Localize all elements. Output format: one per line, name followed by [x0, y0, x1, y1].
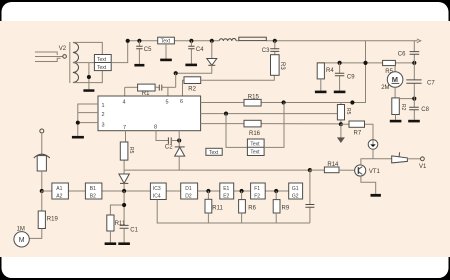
switch S1 [392, 152, 425, 163]
svg-text:D2: D2 [185, 193, 192, 199]
R11 C1 branch [110, 191, 124, 225]
transformer T1 core [69, 42, 71, 83]
svg-text:Text: Text [250, 141, 260, 147]
resistor R19 [29, 191, 45, 238]
svg-text:E2: E2 [223, 193, 229, 199]
svg-text:VT1: VT1 [369, 169, 381, 175]
svg-text:2: 2 [102, 112, 105, 118]
resistor Rm [390, 98, 402, 123]
resistor R16 [244, 120, 261, 127]
emitter wire [361, 176, 376, 194]
motor 2M [387, 66, 403, 98]
wire R15 net [201, 63, 366, 103]
wire top winding to box [73, 42, 102, 54]
diode VD1 [176, 41, 217, 73]
resistor R5b [383, 60, 396, 65]
wire box to rail [111, 41, 128, 63]
svg-text:R11: R11 [115, 221, 126, 227]
svg-text:R5: R5 [128, 147, 134, 154]
IC left pins to bus [78, 104, 98, 136]
capacitor C8 [408, 99, 420, 123]
capacitor C5 [136, 41, 142, 64]
svg-text:3: 3 [102, 123, 105, 129]
svg-text:F1: F1 [254, 186, 260, 192]
wire pin8 [156, 131, 168, 141]
svg-text:C6: C6 [398, 52, 406, 58]
svg-text:IC4: IC4 [153, 193, 161, 199]
svg-text:5: 5 [166, 100, 169, 106]
row rail [42, 190, 289, 192]
top rail [128, 40, 418, 42]
junction [87, 75, 91, 79]
wire top rail to rail2 [365, 41, 367, 63]
resistor R1 [125, 84, 159, 91]
ground VT1 [371, 194, 381, 197]
svg-text:V1: V1 [419, 164, 427, 170]
wire R7 to meter [365, 124, 374, 139]
svg-text:Text: Text [97, 57, 107, 63]
svg-text:C4: C4 [196, 47, 204, 53]
svg-text:F2: F2 [254, 193, 260, 199]
text tag [206, 148, 222, 156]
box IC3 IC4 [150, 183, 166, 200]
rail arrowhead [417, 39, 421, 43]
svg-text:R19: R19 [47, 217, 59, 223]
resistor R15 [244, 99, 261, 106]
terminal circle [40, 129, 44, 133]
svg-text:R3: R3 [279, 62, 285, 70]
plug V2 [35, 52, 66, 62]
transformer T1 winding [73, 43, 79, 83]
svg-text:V2: V2 [59, 46, 67, 52]
resistor R11 [107, 215, 114, 231]
collector wire [361, 159, 392, 165]
IC U1 [98, 96, 201, 131]
capacitor C4 [188, 41, 194, 64]
box F1 F2 [251, 183, 266, 199]
ground C4 [185, 64, 197, 67]
ground transformer [83, 89, 94, 92]
svg-text:C7: C7 [427, 81, 435, 87]
svg-text:G1: G1 [292, 186, 299, 192]
svg-text:4: 4 [123, 100, 126, 106]
svg-text:Text: Text [161, 39, 171, 45]
svg-text:R9: R9 [282, 206, 290, 212]
box E1 E2 [220, 183, 234, 199]
svg-text:C5: C5 [144, 47, 152, 53]
svg-text:C1: C1 [130, 227, 138, 233]
regulator U2 Text [158, 37, 175, 44]
regulator box Text/Text [94, 55, 111, 71]
arrow down [340, 124, 342, 137]
transistor VT1 [355, 165, 366, 176]
capacitor C1 [120, 225, 129, 228]
wire arrester down [41, 171, 43, 191]
box G1 G2 [289, 183, 303, 199]
svg-text:R16: R16 [249, 131, 261, 137]
wire pin7 [124, 131, 125, 170]
ground C5 [134, 64, 144, 67]
diode VD2 [175, 141, 185, 171]
wire R16 net [201, 123, 341, 125]
bottom rail [157, 200, 310, 224]
svg-text:R4: R4 [326, 68, 334, 74]
wire terminal to arrester [41, 133, 43, 156]
resistor R2 [183, 75, 275, 96]
box B1 B2 [85, 183, 102, 199]
wire middle pin net [201, 113, 338, 115]
capacitor C3 [270, 41, 279, 55]
wire to text box [226, 114, 247, 148]
wire node down [175, 73, 177, 87]
wire pin5 up [167, 87, 169, 96]
pot R12 [337, 103, 344, 125]
svg-text:2M: 2M [381, 85, 389, 91]
resistor R3 [271, 55, 280, 76]
node [174, 71, 178, 75]
diode VD3 [119, 170, 129, 191]
svg-text:C2: C2 [165, 145, 173, 151]
ground regulator [165, 44, 167, 59]
wire center tap [73, 63, 95, 90]
wire pin4 up [124, 87, 126, 96]
svg-text:R2: R2 [400, 104, 406, 111]
svg-text:R7: R7 [354, 130, 362, 136]
wire text box right up [264, 103, 284, 148]
meter P1 [368, 140, 378, 159]
svg-text:A2: A2 [56, 193, 62, 199]
resistor R6 [239, 191, 246, 223]
svg-text:R6: R6 [248, 206, 256, 212]
svg-text:R2: R2 [188, 87, 196, 93]
svg-text:Text: Text [209, 150, 219, 156]
resistor R5 [120, 142, 128, 160]
svg-text:D1: D1 [185, 186, 192, 192]
mid rail [124, 169, 310, 171]
svg-text:IC3: IC3 [153, 186, 161, 192]
resistor R9 [273, 191, 280, 223]
svg-text:7: 7 [123, 125, 126, 131]
resistor R4 [315, 63, 327, 93]
node dots on rail [126, 39, 130, 43]
svg-text:C3: C3 [262, 48, 270, 54]
svg-text:C9: C9 [347, 75, 355, 81]
capacitor (R1 row) [159, 85, 175, 91]
capacitor C10 [305, 170, 314, 223]
capacitor C7 [406, 63, 421, 99]
wire node to IC [178, 131, 180, 141]
box D1 D2 [181, 183, 198, 199]
wire Rm to node [399, 98, 414, 100]
svg-text:R11: R11 [212, 206, 223, 212]
svg-text:G2: G2 [292, 193, 299, 199]
text box stacked [247, 139, 264, 156]
svg-text:8: 8 [154, 125, 157, 131]
svg-text:R5: R5 [345, 108, 351, 115]
svg-text:M: M [19, 237, 25, 244]
rail2 [317, 62, 414, 64]
ground bus [72, 136, 84, 139]
box A1 A2 [52, 183, 69, 199]
capacitor C9 [334, 63, 346, 93]
inductor L1 [219, 39, 236, 41]
svg-text:C8: C8 [421, 107, 429, 113]
arrester F1 [34, 154, 50, 171]
wire bottom winding to box [73, 71, 102, 83]
svg-text:1M: 1M [17, 226, 25, 232]
resistor R7 [341, 121, 365, 127]
resistor R14 [310, 167, 355, 173]
motor 1M [14, 232, 29, 247]
svg-text:M: M [392, 75, 398, 84]
svg-text:A1: A1 [56, 186, 62, 192]
svg-text:Text: Text [250, 150, 260, 156]
svg-text:B1: B1 [90, 186, 96, 192]
svg-text:6: 6 [180, 99, 183, 105]
inductor bar [239, 37, 266, 40]
capacitor C6 [410, 41, 420, 63]
svg-text:Text: Text [97, 65, 107, 71]
svg-text:E1: E1 [223, 186, 229, 192]
svg-text:1: 1 [102, 103, 105, 109]
svg-text:R14: R14 [327, 162, 339, 168]
svg-text:B2: B2 [90, 193, 96, 199]
svg-text:R15: R15 [248, 94, 260, 100]
capacitor C2 [168, 137, 171, 144]
resistor R10 [205, 191, 212, 223]
